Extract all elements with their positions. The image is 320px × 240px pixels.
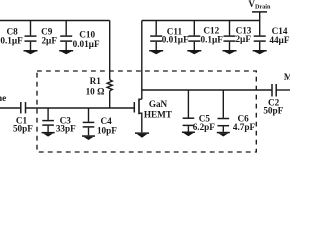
ground (C14) bbox=[253, 50, 267, 54]
capacitor C12 bbox=[188, 21, 223, 50]
power: V_Drain terminal bbox=[248, 0, 271, 21]
svg-text:ne: ne bbox=[0, 93, 6, 103]
capacitor C5 bbox=[183, 90, 216, 132]
ground (C4) bbox=[82, 135, 95, 140]
ground (C3) bbox=[42, 132, 55, 137]
wire: gate line bbox=[26, 107, 135, 109]
wire: drain bias drop bbox=[141, 21, 143, 100]
svg-text:0.01µF: 0.01µF bbox=[162, 35, 189, 45]
svg-text:GaN: GaN bbox=[149, 99, 168, 109]
svg-text:2µF: 2µF bbox=[235, 34, 251, 44]
svg-text:50pF: 50pF bbox=[263, 105, 283, 115]
capacitor C1 (series) bbox=[13, 102, 33, 133]
ground (source) bbox=[135, 132, 149, 137]
svg-text:4.7pF: 4.7pF bbox=[233, 122, 256, 132]
svg-text:10 Ω: 10 Ω bbox=[86, 86, 105, 96]
capacitor C8 (cropped at left edge, label only) bbox=[0, 26, 23, 45]
capacitor C11 bbox=[150, 21, 189, 50]
svg-text:Drain: Drain bbox=[255, 4, 271, 11]
svg-text:0.1µF: 0.1µF bbox=[0, 35, 23, 45]
ground (C13) bbox=[223, 50, 237, 54]
transistor Q1 GaN HEMT bbox=[134, 99, 172, 120]
capacitor C2 (series) bbox=[263, 84, 283, 115]
wire: gate bias rail bbox=[0, 20, 110, 22]
wire: drain stub bbox=[139, 98, 142, 100]
dashed box: bias network boundary bbox=[37, 71, 256, 152]
svg-text:0.1µF: 0.1µF bbox=[201, 35, 224, 45]
svg-text:M: M bbox=[284, 72, 290, 82]
resistor R1 10 Ohm bbox=[86, 76, 113, 97]
ground (C5) bbox=[182, 132, 195, 137]
wire: input line bbox=[0, 107, 21, 109]
ground (C6) bbox=[217, 132, 230, 137]
wire: drain bias rail bbox=[142, 20, 260, 22]
svg-text:HEMT: HEMT bbox=[144, 110, 172, 120]
wire: R1 to gate line bbox=[109, 91, 111, 108]
ground (C9) bbox=[24, 50, 38, 54]
capacitor C6 bbox=[218, 90, 256, 132]
wire: output to M bbox=[276, 89, 290, 91]
svg-text:33pF: 33pF bbox=[56, 123, 76, 133]
wire: source stub bbox=[139, 113, 142, 132]
svg-text:C4: C4 bbox=[100, 116, 112, 126]
svg-text:10pF: 10pF bbox=[97, 126, 117, 136]
svg-text:6.2pF: 6.2pF bbox=[193, 122, 216, 132]
capacitor C14 bbox=[254, 21, 290, 50]
svg-text:44µF: 44µF bbox=[269, 35, 289, 45]
svg-text:50pF: 50pF bbox=[13, 123, 33, 133]
capacitor C3 bbox=[42, 108, 76, 133]
capacitor C4 bbox=[83, 108, 118, 136]
capacitor C13 bbox=[224, 21, 252, 50]
ground (C12) bbox=[187, 50, 201, 54]
wire: gate bias drop bbox=[109, 21, 111, 80]
ground (C10) bbox=[59, 50, 73, 54]
svg-text:0.01µF: 0.01µF bbox=[73, 39, 100, 49]
svg-text:R1: R1 bbox=[90, 76, 102, 86]
ground (C11) bbox=[149, 50, 163, 54]
capacitor C9 bbox=[25, 21, 58, 50]
svg-text:2µF: 2µF bbox=[41, 35, 57, 45]
capacitor C10 bbox=[60, 21, 100, 50]
wire: output line bbox=[142, 89, 272, 91]
